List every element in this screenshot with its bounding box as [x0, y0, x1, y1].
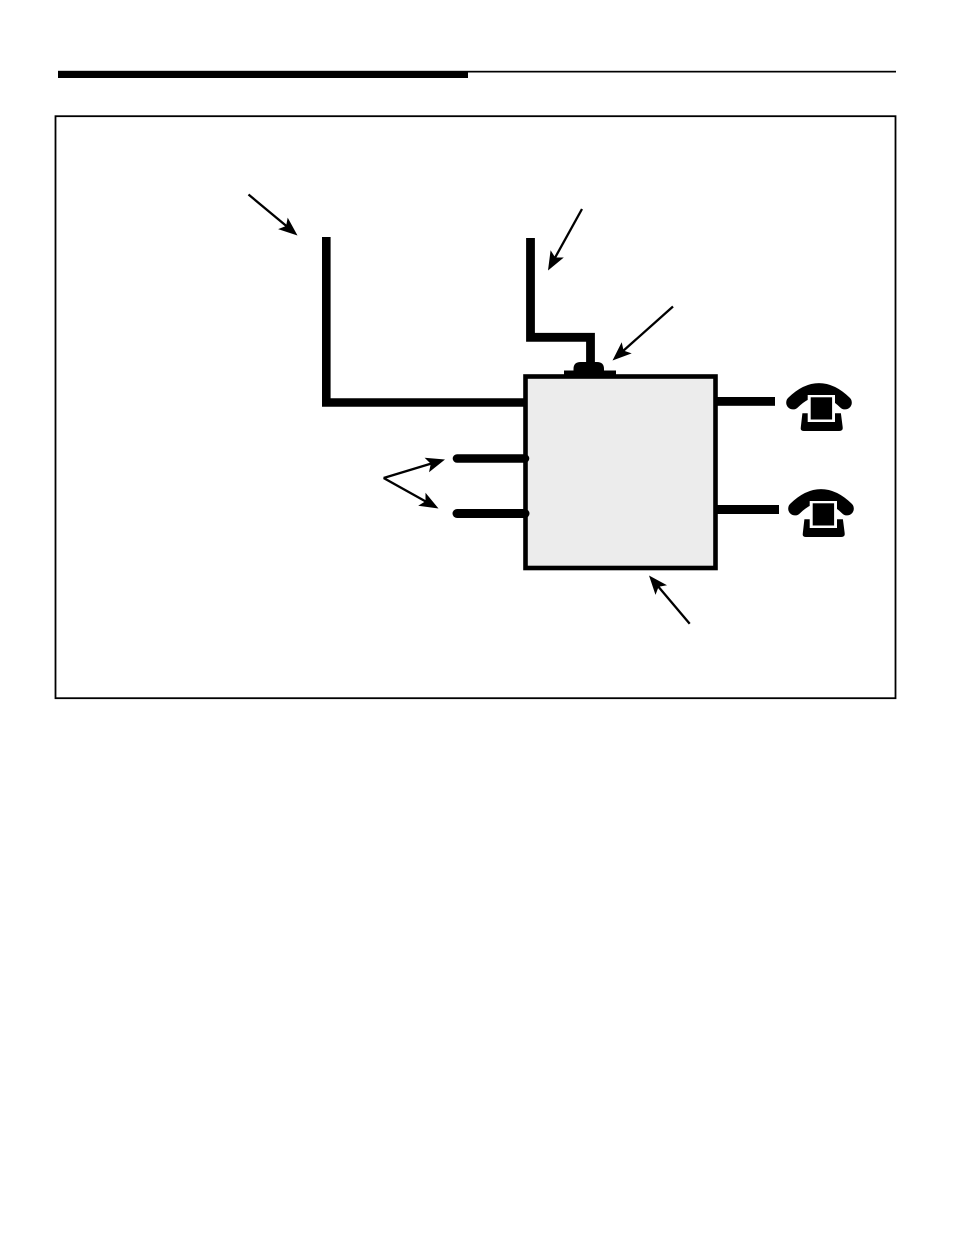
wire: extension line to telephone 1 — [716, 397, 775, 406]
telephone icon 1 — [793, 390, 845, 431]
wire: incoming CO line 1 (L-shaped drop) — [326, 237, 527, 403]
arrow: double callout to station stubs — [384, 458, 445, 509]
arrow: callout to CO line 1 — [249, 195, 298, 236]
KSU box (key service unit) — [526, 377, 716, 569]
arrow: callout to CO line 2 — [548, 209, 582, 271]
arrow: callout to KSU box — [649, 576, 690, 624]
telephone icon 2 — [795, 496, 847, 537]
connector: modular line-cord plug on top of KSU — [564, 362, 616, 377]
wire: incoming CO line 2 (vertical drop with jog to plug) — [531, 238, 591, 364]
wire: station stub 1 (upper left of KSU) — [457, 454, 525, 463]
wire: extension line to telephone 2 — [716, 505, 779, 514]
wire: station stub 2 (lower left of KSU) — [457, 509, 525, 518]
arrow: callout to line-cord plug — [613, 307, 674, 361]
